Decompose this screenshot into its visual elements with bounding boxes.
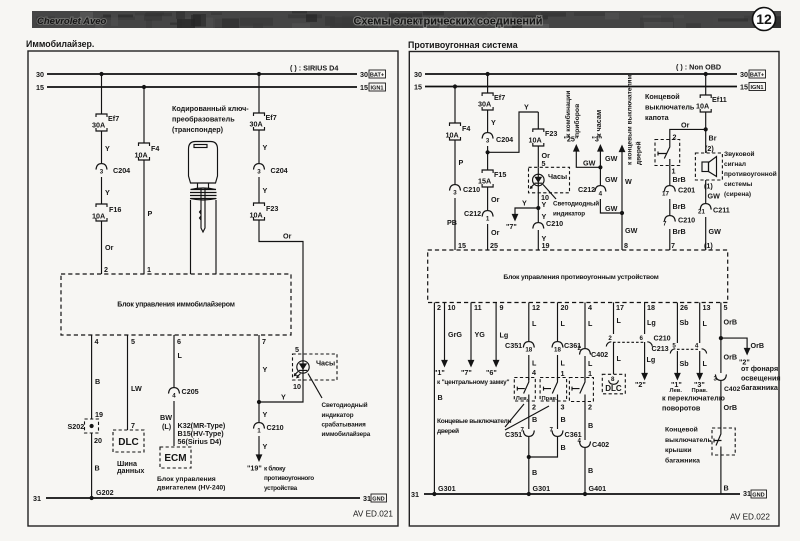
fuse Ef7 30A (left chain A) [92,114,119,131]
svg-text:L: L [703,319,708,328]
wire L arrow *3* [692,351,708,394]
third switch [569,378,593,402]
connector C361 pin7 [550,427,582,440]
svg-text:31: 31 [743,489,751,498]
wire BrB hood [670,165,686,185]
junction pin8 chain [620,211,624,215]
wire P chain R1 [455,140,464,184]
svg-text:(1): (1) [704,241,713,250]
svg-text:17: 17 [662,191,669,198]
connector C213 pin5 [670,343,706,354]
caption hood switch [645,92,695,122]
svg-text:17: 17 [616,303,624,312]
wire Ef11 top [705,74,707,95]
wire B trunk to bus 31 [721,455,729,494]
wire L to left door switch [529,355,537,380]
svg-text:L: L [617,316,622,325]
svg-text:F4: F4 [462,124,470,133]
svg-text:30: 30 [360,70,368,79]
svg-text:31: 31 [363,494,371,503]
pin 9 wire Lg arrow [486,303,508,378]
svg-text:C351: C351 [505,341,522,350]
fuse F16 10A [92,204,121,221]
svg-text:10A: 10A [135,151,148,160]
wire PB to pin 15 [447,198,466,250]
svg-text:GND: GND [752,493,764,499]
svg-text:W: W [625,177,632,186]
svg-text:10A: 10A [92,212,105,221]
svg-text:1: 1 [147,265,151,274]
svg-text:данных: данных [117,466,144,475]
svg-text:20: 20 [94,436,102,445]
caption from trunk lamp [741,364,781,392]
pin 11 wire YG arrow [461,303,485,378]
svg-text:Противоугонная система: Противоугонная система [408,40,518,50]
svg-text:OrB: OrB [724,353,738,362]
svg-text:2: 2 [437,303,441,312]
svg-text:Y: Y [542,200,547,209]
svg-text:BAT+: BAT+ [750,73,765,79]
svg-text:Кодированный ключ-: Кодированный ключ- [172,104,249,113]
svg-text:3: 3 [486,138,490,145]
svg-text:багажника: багажника [741,383,779,392]
wire GW to pin (1) [704,217,721,250]
connector C351 pin18 [505,341,534,354]
wire OrB to trunk switch [721,381,737,428]
junction Or branch [704,127,708,131]
svg-text:Chevrolet Aveo: Chevrolet Aveo [37,16,107,27]
svg-text:капота: капота [645,113,670,122]
bus 30 (right) [414,70,748,79]
svg-text:Lg: Lg [647,355,656,364]
wire GW siren [704,180,720,203]
node on bus30 chain R2 [486,72,490,76]
svg-text:10A: 10A [529,136,542,145]
svg-text:BrB: BrB [673,227,686,236]
svg-text:8: 8 [611,376,615,383]
wire BrB to C210 [670,199,686,215]
svg-text:C201: C201 [678,186,695,195]
svg-text:GW: GW [583,159,596,168]
pin 5 wire LW [128,335,142,430]
wire chain C top [258,74,260,113]
branch wire Y to F23 [488,103,539,153]
svg-text:B: B [561,443,566,452]
svg-text:5: 5 [542,159,546,168]
svg-text:противоугонного: противоугонного [264,475,314,482]
svg-text:AV ED.022: AV ED.022 [730,513,770,522]
wire chain B top [143,87,145,143]
wire Br to siren [705,129,717,153]
svg-text:Lg: Lg [647,318,656,327]
svg-text:YG: YG [475,330,486,339]
svg-text:Светодиодный: Светодиодный [322,401,368,409]
caption data bus [117,459,144,475]
svg-text:преобразователь: преобразователь [172,115,235,124]
wire Y chain A [102,131,111,163]
svg-text:56(Sirius D4): 56(Sirius D4) [178,437,223,446]
junction clock branch [536,206,540,210]
svg-text:GW: GW [605,175,618,184]
svg-text:31: 31 [33,494,41,503]
svg-text:Лев.: Лев. [516,396,529,402]
wire L to right door switch [558,355,566,380]
svg-text:багажника: багажника [665,456,700,464]
svg-text:7: 7 [131,421,135,430]
connector C402 pin2 [578,345,609,359]
svg-text:"3": "3" [592,135,603,144]
vertical caption to instrument cluster [564,91,581,137]
wire P to pin 1 [144,160,153,274]
svg-text:30: 30 [740,70,748,79]
bus 15 (left) [36,83,368,92]
svg-text:от фонаря: от фонаря [741,364,778,373]
left panel border [28,51,398,526]
svg-text:OrB: OrB [724,318,738,327]
svg-text:C402: C402 [591,350,608,359]
wire Sb arrow *1* [670,351,690,394]
svg-text:"6": "6" [486,368,497,377]
svg-text:Y: Y [263,442,268,451]
page number badge 12 [753,8,776,31]
wire BrB to pin 7 [670,227,686,250]
arrow to anti-theft unit [247,454,262,472]
node on bus30 Ef11 [704,72,708,76]
svg-text:4: 4 [95,337,99,346]
caption to turn signal switch [662,394,725,413]
svg-text:C204: C204 [113,166,130,175]
svg-text:Y: Y [105,188,110,197]
svg-text:к комбинации: к комбинации [564,91,572,137]
svg-text:Or: Or [681,121,690,130]
svg-text:4: 4 [695,343,699,350]
svg-text:Ef7: Ef7 [266,113,277,122]
svg-text:3: 3 [714,376,718,383]
connector C361 pin18 [552,341,581,354]
svg-text:12: 12 [756,11,772,27]
transponder key head [189,142,218,184]
fuse F4 10A (right) [446,123,471,140]
svg-text:Концевой: Концевой [665,426,698,434]
svg-text:2: 2 [673,133,677,142]
svg-text:30A: 30A [92,121,105,130]
svg-text:7: 7 [671,241,675,250]
svg-text:C210: C210 [546,219,563,228]
svg-text:3: 3 [561,403,565,412]
svg-text:устройства: устройства [264,484,298,492]
svg-text:7: 7 [550,427,554,434]
svg-text:5: 5 [295,345,299,354]
svg-text:L: L [532,319,537,328]
svg-text:IGN1: IGN1 [370,86,383,92]
DLC box (left) [113,430,144,452]
svg-text:Y: Y [105,144,110,153]
svg-text:C211: C211 [713,206,730,215]
svg-text:индикатор: индикатор [322,412,354,419]
svg-text:Часы: Часы [548,172,567,181]
wire Or to clock (right) [538,146,550,168]
node on bus15 chain B [142,85,146,89]
pin 26 wire Sb [677,303,689,344]
svg-text:освещения: освещения [741,373,781,382]
svg-text:10: 10 [448,303,456,312]
svg-text:срабатывания: срабатывания [322,420,367,428]
pin 4 wire B [92,335,101,419]
svg-text:1: 1 [588,369,592,378]
svg-text:Y: Y [263,186,268,195]
GND tag (right) [751,490,767,499]
svg-text:2: 2 [608,335,612,342]
wire Or corner to clock [259,220,303,354]
svg-text:P: P [459,158,464,167]
svg-text:C402: C402 [592,440,609,449]
svg-text:Часы: Часы [316,359,335,368]
vertical caption to door switches [627,74,643,165]
wire Y to pin 19 [538,230,549,250]
svg-text:к концевым выключателям: к концевым выключателям [627,74,634,165]
svg-text:9: 9 [500,303,504,312]
svg-text:поворотов: поворотов [662,404,701,413]
svg-text:20: 20 [561,303,569,312]
DLC box (right) [602,374,625,394]
svg-text:19: 19 [95,410,103,419]
node on bus30 chain C [257,72,261,76]
svg-text:GW: GW [709,227,722,236]
splice S202 [68,410,104,445]
svg-text:G202: G202 [96,488,114,497]
branch from trunk lamp [721,338,764,366]
header bar [32,11,800,37]
svg-text:F23: F23 [545,129,557,138]
wire chain R2 top [487,74,489,93]
svg-text:B: B [95,464,100,473]
siren box [695,153,722,180]
svg-text:"7": "7" [506,222,517,231]
connector C204 pin3 (right) [482,133,513,153]
LED indicator (right) [531,167,550,202]
svg-text:B: B [561,415,566,424]
junction to F23 branch [486,150,490,154]
arrow *25* up [564,135,601,168]
connector C204 pin3 (left chain C) [254,164,288,203]
fuse Ef7 30A (left chain C) [250,113,277,130]
wire L to DLC [614,342,622,374]
svg-text:( ) : Non OBD: ( ) : Non OBD [676,63,721,72]
connector C210 pin2 (right R3) [533,219,563,229]
ground G301 (pin2) [432,484,455,496]
svg-text:Иммобилайзер.: Иммобилайзер. [26,39,94,49]
LED caption (left) [322,401,371,438]
svg-text:L: L [588,319,593,328]
svg-text:12: 12 [532,303,540,312]
wire BW labels [160,413,226,446]
svg-text:Br: Br [709,134,717,143]
svg-text:C210: C210 [267,423,284,432]
connector C351 pin7 [505,427,534,440]
svg-text:19: 19 [542,241,550,250]
pin 2 wire B to G301 [434,303,442,495]
svg-text:1: 1 [486,216,490,223]
svg-text:GW: GW [605,204,618,213]
caption trunk switch [665,426,712,465]
arrow *3* up [592,135,618,168]
svg-text:OrB: OrB [751,341,765,350]
svg-text:10A: 10A [250,211,263,220]
pin 10 wire GrG arrow [434,303,462,378]
svg-text:Блок управления иммобилайзером: Блок управления иммобилайзером [117,301,234,309]
BAT+ tag (left) [369,70,386,79]
svg-text:иммобилайзера: иммобилайзера [322,430,371,438]
svg-text:2: 2 [578,345,582,352]
svg-text:IGN1: IGN1 [750,85,763,91]
node on bus30 chain A [99,72,103,76]
wire Or to pin 25 [488,224,500,250]
svg-text:GrG: GrG [448,330,462,339]
svg-text:Or: Or [283,232,292,241]
branch Or wire to hood switch [670,121,706,142]
LED indicator (left) [293,354,309,391]
svg-text:15: 15 [458,241,466,250]
svg-text:к "центральному замку": к "центральному замку" [437,379,510,386]
fuse Ef7 30A (right) [478,93,505,110]
LED callout (right) [543,185,556,200]
fuse F4 10A (left) [135,143,160,160]
wire GW to pin 8 [624,226,638,250]
connector C204 pin3 (left chain A) [96,164,130,204]
wire B to G401 [585,448,593,494]
svg-text:DLC: DLC [118,437,139,448]
svg-text:C351: C351 [505,430,522,439]
svg-text:AV ED.021: AV ED.021 [353,509,393,518]
svg-text:C212: C212 [578,185,595,194]
caption engine control unit [157,476,225,492]
ground G301 (doors) [527,484,550,496]
svg-text:(сирена): (сирена) [724,191,751,198]
svg-text:26: 26 [680,303,688,312]
wire B to G202 [92,433,100,498]
svg-text:дверей: дверей [437,427,459,435]
svg-text:Y: Y [522,199,527,208]
svg-text:Y: Y [281,393,286,402]
svg-text:18: 18 [554,347,561,354]
connector C213 pin4 [695,343,699,350]
svg-text:10A: 10A [446,131,459,140]
svg-text:10A: 10A [696,102,709,111]
svg-text:выключатель: выключатель [645,103,695,112]
svg-text:"19": "19" [247,464,262,473]
svg-text:Y: Y [263,143,268,152]
svg-text:15: 15 [36,83,44,92]
junction pin7 branch [257,400,261,404]
wire OrB to C402 pin3 [721,338,737,373]
connector C402 pin4 [578,438,610,450]
svg-text:Ef11: Ef11 [712,95,727,104]
svg-text:GW: GW [625,226,638,235]
fuse Ef11 10A [696,95,727,112]
wire chain A top [101,74,103,114]
svg-text:2: 2 [532,403,536,412]
bus 30 (left) [36,70,368,79]
svg-text:30A: 30A [478,100,491,109]
svg-text:GW: GW [708,192,721,201]
svg-text:Концевые выключатели: Концевые выключатели [437,418,511,425]
junction trunk lamp branch [719,336,723,340]
caption to anti-theft unit [264,465,314,492]
connector C212 pin1 [464,209,493,223]
svg-text:(1): (1) [704,182,713,191]
svg-text:(транспондер): (транспондер) [172,125,224,134]
wire B third switch [585,402,593,441]
svg-text:Or: Or [491,228,500,237]
svg-text:индикатор: индикатор [553,211,585,218]
wire Y chain C [259,130,268,163]
svg-text:C210: C210 [463,185,480,194]
svg-text:Звуковой: Звуковой [724,150,755,158]
svg-text:GW: GW [605,154,618,163]
trunk lid switch [712,428,735,455]
key blade [200,188,206,232]
pin 7 wire Y [259,335,268,402]
svg-text:( ) : SIRIUS D4: ( ) : SIRIUS D4 [290,64,338,73]
svg-text:Блок управления: Блок управления [157,476,216,483]
svg-text:11: 11 [474,303,482,312]
fuse F23 10A (left) [250,203,279,220]
svg-text:4: 4 [172,393,176,400]
svg-text:B: B [724,484,729,493]
connector C210 pin7 (hood) [663,216,695,228]
svg-text:31: 31 [411,490,419,499]
svg-text:C205: C205 [182,387,199,396]
pin 18 wire Lg [645,303,656,335]
svg-text:15: 15 [414,83,422,92]
svg-text:6: 6 [177,337,181,346]
svg-text:Ef7: Ef7 [494,93,505,102]
svg-text:6: 6 [640,335,644,342]
wire L to trunk-area switch [585,356,593,380]
svg-text:21: 21 [698,209,705,216]
wire B left door [529,401,537,429]
svg-text:C204: C204 [496,135,513,144]
wire B to G301 junction [529,437,537,494]
pin 20 wire L [558,303,569,342]
svg-text:15: 15 [740,83,748,92]
svg-text:Or: Or [491,195,500,204]
pin 5 wire OrB [721,303,737,339]
svg-text:L: L [561,319,566,328]
svg-text:1: 1 [561,369,565,378]
svg-text:1: 1 [257,428,261,435]
wire Y to C210 [538,208,546,222]
wire Or to pin 2 [102,221,114,274]
svg-text:30: 30 [414,70,422,79]
wire Or chain R2 [488,187,500,210]
connector C205 pin4 [169,387,199,446]
svg-text:30: 30 [36,70,44,79]
right door switch [540,378,567,403]
svg-text:B: B [95,377,100,386]
wire GW to C212 pin4 [600,167,617,185]
svg-text:DLC: DLC [605,384,622,393]
svg-text:B: B [438,393,443,402]
LED callout line [308,374,322,399]
svg-text:ECM: ECM [164,453,186,464]
wire Y chain R2 [488,110,496,132]
svg-text:Схемы электрических соединений: Схемы электрических соединений [353,16,542,28]
svg-text:C212: C212 [464,209,481,218]
svg-text:выключатель: выключатель [665,437,712,444]
svg-text:2: 2 [588,403,592,412]
svg-text:BrB: BrB [673,202,686,211]
